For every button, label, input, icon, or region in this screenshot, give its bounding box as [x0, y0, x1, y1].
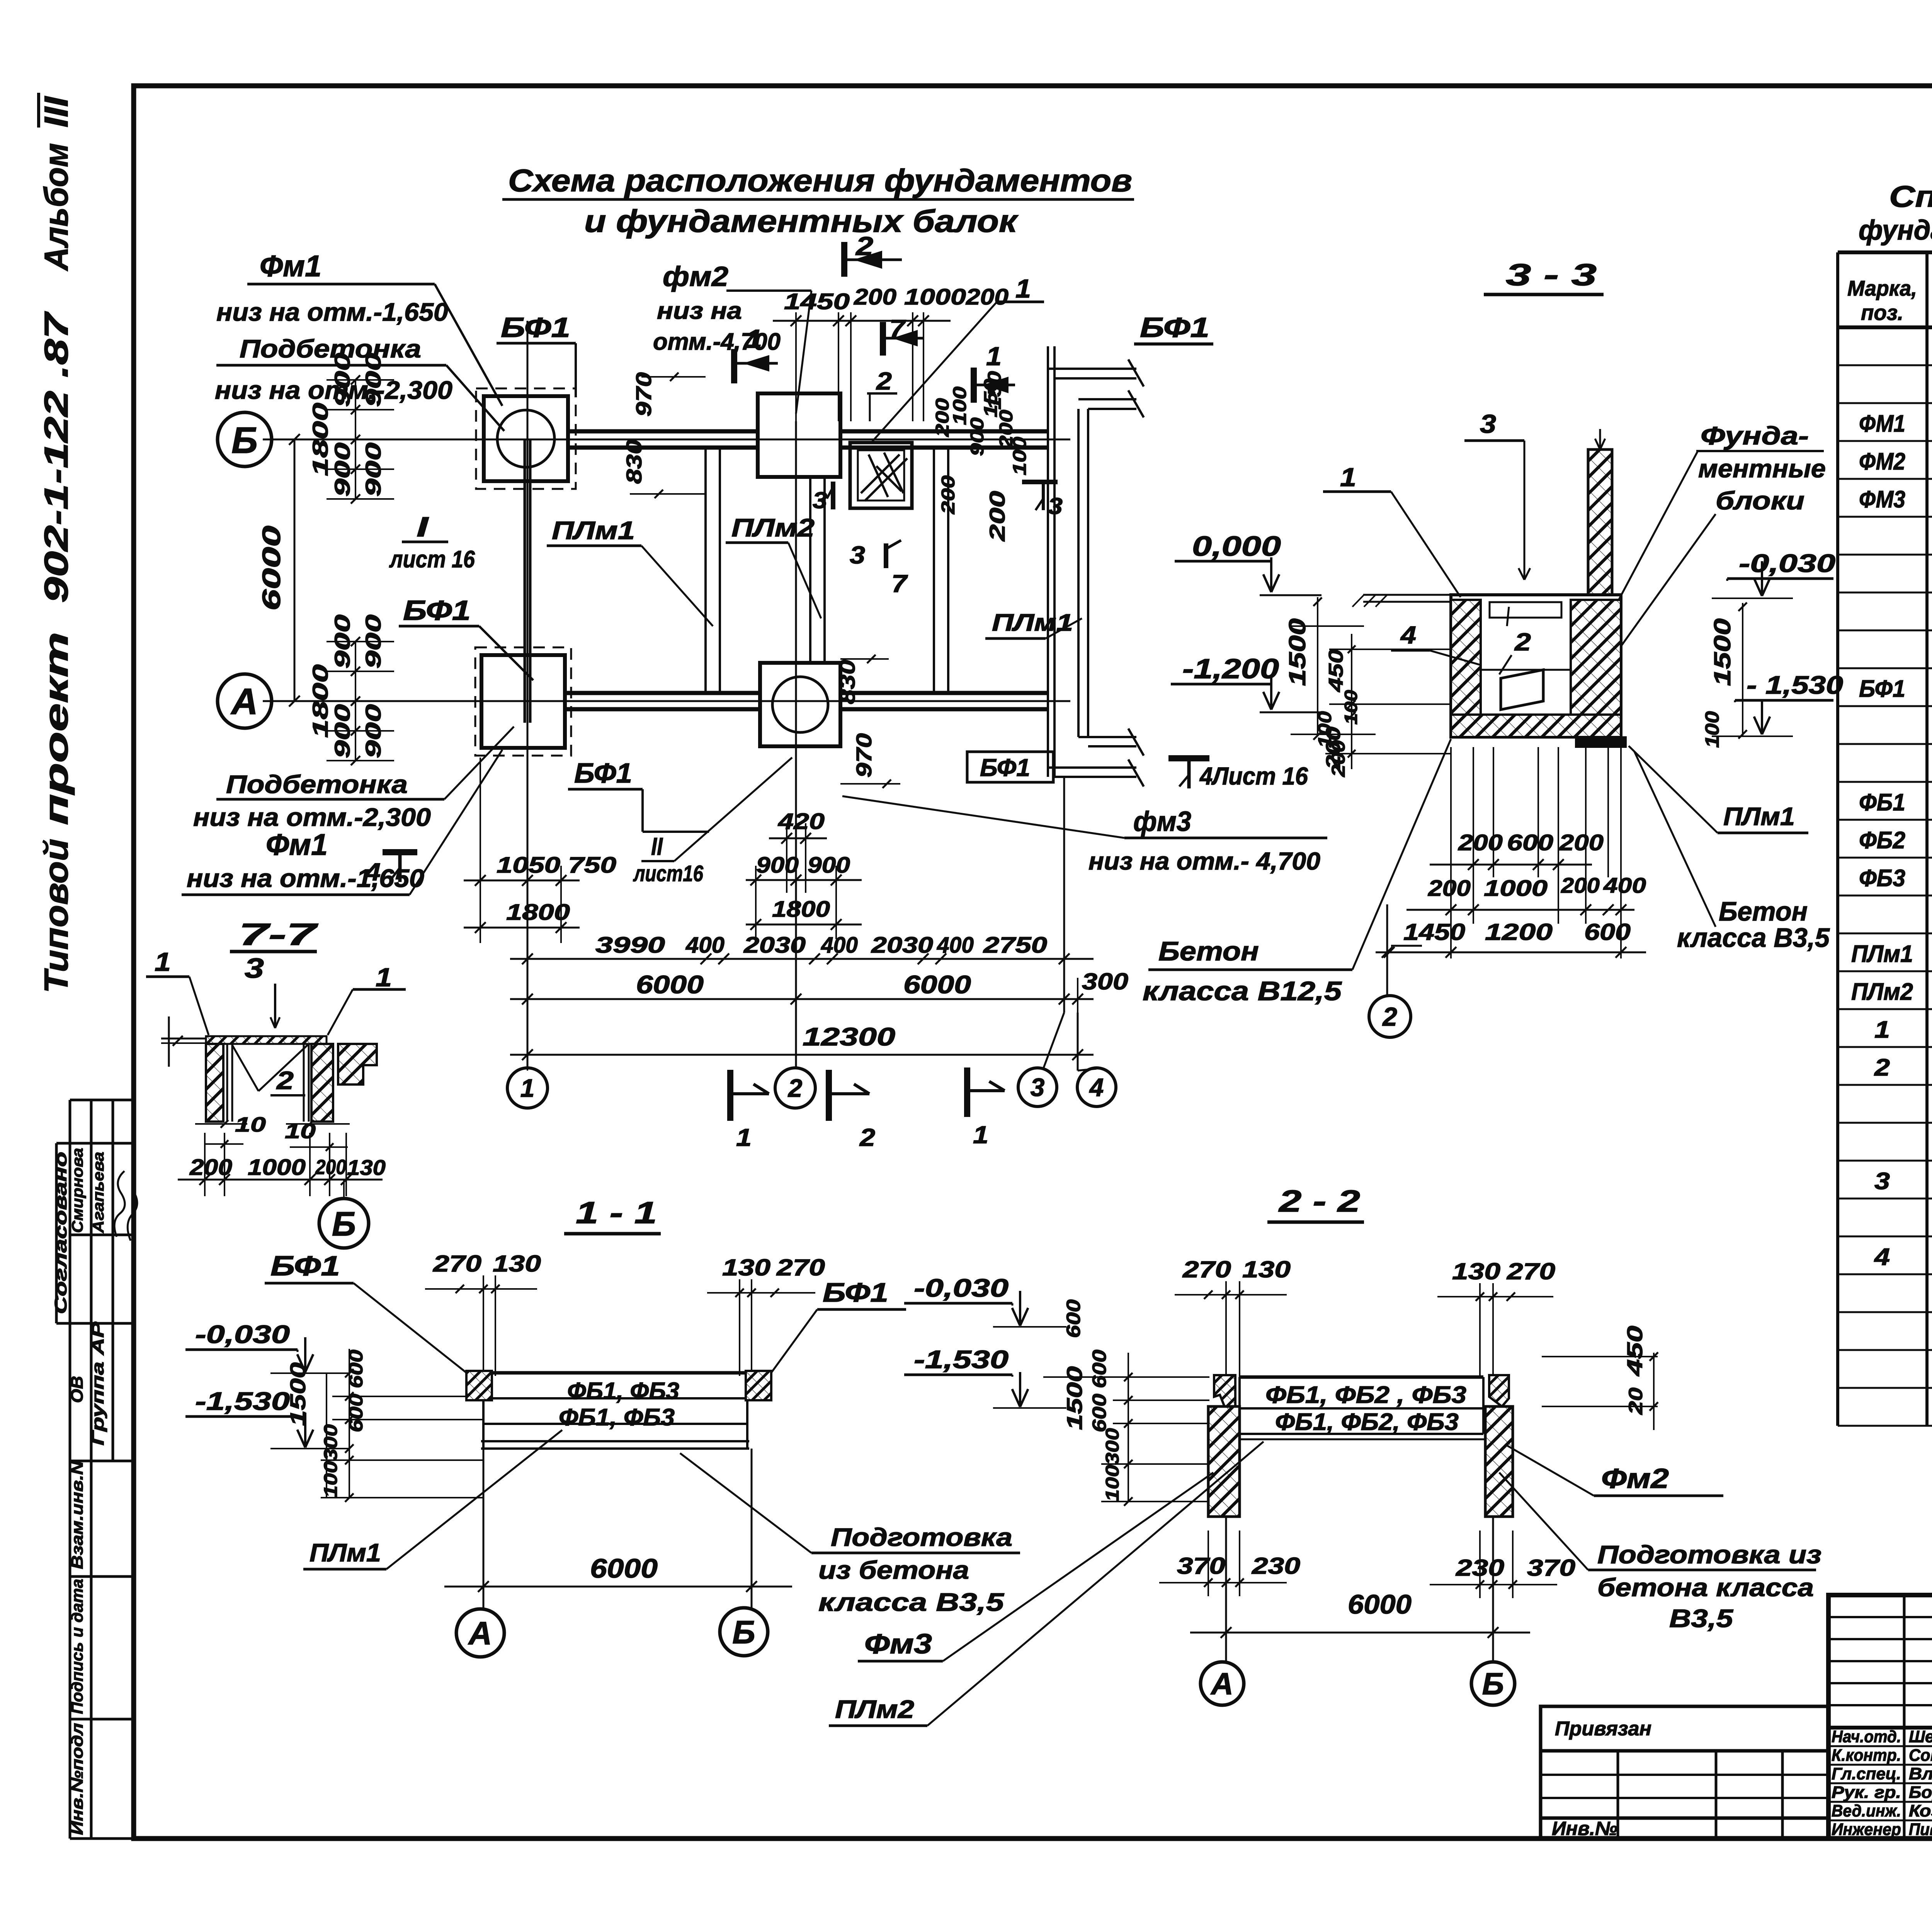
svg-text:1500: 1500: [1709, 618, 1735, 686]
svg-text:Рук. гр.: Рук. гр.: [1832, 1783, 1901, 1802]
svg-text:130: 130: [347, 1155, 386, 1180]
1-1 beam body: [481, 1373, 749, 1449]
foundation ФМ2 square: [758, 393, 840, 477]
svg-text:ПЛм1: ПЛм1: [1723, 802, 1795, 831]
3-3 right block hatched: [1571, 600, 1621, 715]
svg-text:Фм1: Фм1: [266, 827, 328, 861]
svg-text:12300: 12300: [803, 1022, 895, 1051]
svg-text:400: 400: [1603, 873, 1646, 897]
plan axis verticals down to circles: [527, 321, 529, 1069]
svg-text:270: 270: [433, 1251, 481, 1277]
svg-text:2: 2: [787, 1074, 803, 1102]
svg-text:1: 1: [1015, 274, 1031, 303]
3-3 bottom slab hatched: [1451, 715, 1621, 737]
left stamp label Инв.N подл: [68, 1723, 86, 1835]
svg-text:1: 1: [747, 324, 762, 354]
svg-text:из бетона: из бетона: [818, 1556, 969, 1584]
svg-text:А: А: [230, 681, 258, 722]
svg-text:270: 270: [776, 1255, 825, 1280]
svg-text:400: 400: [821, 933, 858, 958]
3-3 rotated dims 450/100/200 left: [1325, 649, 1347, 692]
svg-text:ПЛм1: ПЛм1: [552, 516, 635, 545]
svg-text:300: 300: [1082, 969, 1128, 994]
3-3 foot strip: [1576, 737, 1626, 747]
svg-text:1 - 1: 1 - 1: [576, 1195, 657, 1230]
svg-text:низ на отм.-2,300: низ на отм.-2,300: [193, 803, 431, 831]
svg-text:Пивоворова: Пивоворова: [1909, 1820, 1932, 1839]
svg-text:4: 4: [1089, 1073, 1104, 1102]
svg-text:1: 1: [376, 963, 392, 992]
svg-text:БФ1: БФ1: [501, 312, 570, 343]
svg-text:4: 4: [1874, 1244, 1890, 1270]
svg-text:ФМ1: ФМ1: [1859, 410, 1905, 437]
svg-text:2: 2: [1382, 1002, 1397, 1032]
section 7-7 slab: [206, 1036, 327, 1044]
svg-text:Фм1: Фм1: [260, 249, 321, 283]
привязан box: [1541, 1706, 1828, 1839]
svg-text:2750: 2750: [983, 933, 1047, 958]
3-3 wall above hatched: [1588, 449, 1612, 595]
svg-text:Марка,: Марка,: [1847, 276, 1917, 300]
svg-text:1: 1: [973, 1121, 988, 1149]
svg-text:600: 600: [1088, 1350, 1110, 1388]
svg-text:1: 1: [155, 947, 171, 977]
3-3 bottom projection verticals: [1451, 747, 1621, 958]
svg-text:4Лист 16: 4Лист 16: [1199, 762, 1308, 790]
svg-text:1800: 1800: [772, 897, 830, 922]
svg-text:Привязан: Привязан: [1555, 1718, 1651, 1740]
axis circle 2: [775, 1068, 815, 1108]
svg-text:2: 2: [276, 1066, 294, 1095]
svg-text:450: 450: [1325, 649, 1347, 692]
svg-text:Б: Б: [332, 1205, 356, 1243]
svg-text:3990: 3990: [595, 933, 665, 958]
foundation ФМ1 bottom: dashed outer square: [475, 647, 571, 756]
svg-text:лист16: лист16: [633, 861, 704, 886]
svg-text:100: 100: [321, 1461, 341, 1498]
left stamp label Группа АР: [88, 1321, 107, 1445]
svg-text:200: 200: [1561, 873, 1600, 897]
svg-text:Борисенко: Борисенко: [1909, 1783, 1932, 1802]
svg-text:класса В3,5: класса В3,5: [818, 1588, 1005, 1616]
svg-text:ОВ: ОВ: [68, 1376, 87, 1403]
svg-text:ФБ1, ФБ3: ФБ1, ФБ3: [559, 1404, 675, 1431]
rotated dims 150/200/100 at bracket: [981, 379, 1001, 417]
svg-text:200: 200: [854, 284, 896, 310]
svg-text:750: 750: [568, 853, 616, 878]
svg-text:900: 900: [330, 443, 354, 497]
svg-text:ПЛм2: ПЛм2: [1851, 979, 1913, 1005]
svg-text:100: 100: [1102, 1465, 1123, 1502]
plan right: wall bracket profile: [1048, 346, 1144, 787]
svg-text:200: 200: [938, 475, 959, 515]
flag 4 Лист 16: [1168, 755, 1209, 761]
svg-text:II: II: [651, 833, 663, 860]
svg-text:3: 3: [1874, 1168, 1890, 1195]
svg-text:ФБ2: ФБ2: [1859, 827, 1905, 854]
foundation ФМ1 top: solid square: [484, 396, 568, 481]
svg-text:Спецификация к схеме рас: Спецификация к схеме расположения: [1889, 179, 1932, 213]
3-3 rotated dim 1500 right: [1709, 618, 1735, 686]
foundation ФМ1 top: inner circle: [497, 410, 554, 467]
svg-text:3: 3: [813, 487, 827, 513]
svg-text:Нач.отд.: Нач.отд.: [1832, 1727, 1901, 1746]
svg-text:БФ1: БФ1: [823, 1277, 888, 1308]
svg-text:1: 1: [1340, 463, 1356, 492]
plan bottom dims 420 / 900 900 / 1800 (axis 2): [746, 823, 862, 939]
svg-text:1200: 1200: [1485, 919, 1553, 945]
svg-text:2: 2: [855, 232, 874, 261]
svg-text:БФ1: БФ1: [1140, 312, 1209, 343]
svg-text:БФ1: БФ1: [270, 1251, 340, 1282]
beam edges along axis Б: [568, 429, 758, 434]
rotated dim 200 (left of bracket): [985, 491, 1009, 541]
rotated dim 970 (lower): [852, 733, 876, 778]
svg-text:Подготовка: Подготовка: [831, 1523, 1012, 1551]
plan: axis circle А: [218, 674, 272, 728]
foundation ФМ3 circle: [772, 677, 828, 732]
svg-text:200: 200: [189, 1155, 232, 1180]
plate ПЛм2 vertical edges: [809, 477, 811, 663]
rotated dims 200/100/900/150 cluster: [932, 398, 953, 438]
svg-text:2 - 2: 2 - 2: [1278, 1184, 1360, 1218]
embedded item: hatched square: [850, 443, 912, 508]
svg-text:1: 1: [1874, 1016, 1890, 1043]
1-1 rotated dims 600/600/1500/300/100: [345, 1350, 367, 1388]
svg-text:6000: 6000: [903, 970, 971, 999]
svg-text:фм2: фм2: [663, 261, 728, 292]
1-1 axis lines and circles: [483, 1449, 485, 1609]
svg-text:900: 900: [361, 615, 385, 669]
svg-text:600: 600: [1507, 830, 1553, 855]
section flag 1 (bottom right): [964, 1067, 970, 1117]
svg-text:0,000: 0,000: [1192, 531, 1281, 562]
svg-text:100: 100: [1701, 711, 1723, 748]
svg-text:Подбетонка: Подбетонка: [240, 334, 421, 363]
left stamp label Смирнова: [69, 1148, 86, 1233]
svg-text:Схема расположения фундаменто: Схема расположения фундаментов: [508, 163, 1132, 198]
svg-text:Подбетонка: Подбетонка: [226, 770, 408, 798]
2-2 dims 450/20 rotated right: [1622, 1326, 1647, 1376]
plan: vertical dim 6000 between axes: [294, 439, 296, 701]
svg-text:600: 600: [1584, 919, 1631, 945]
svg-text:и фундаментных балок: и фундаментных балок: [584, 204, 1019, 239]
svg-text:600: 600: [345, 1350, 367, 1388]
section 7-7 V trench: [232, 1045, 259, 1091]
circled 2 under 3-3: [1369, 996, 1411, 1037]
svg-text:-1,530: -1,530: [914, 1345, 1009, 1374]
svg-text:-1,200: -1,200: [1182, 654, 1279, 684]
svg-text:Типовой: Типовой: [38, 839, 75, 993]
svg-text:900: 900: [808, 853, 850, 878]
svg-text:1450: 1450: [1403, 919, 1465, 945]
plan: axis Б line: [263, 439, 1070, 441]
svg-text:1000: 1000: [248, 1155, 306, 1180]
svg-text:Власенко: Власенко: [1909, 1764, 1932, 1783]
3-3 cavity inner details: [1490, 602, 1561, 618]
svg-text:Группа АР: Группа АР: [88, 1321, 107, 1445]
2-2 left column hatched: [1208, 1406, 1240, 1517]
svg-text:Шейко: Шейко: [1909, 1727, 1932, 1746]
svg-text:3 - 3: 3 - 3: [1506, 257, 1597, 292]
svg-text:ПЛм2: ПЛм2: [731, 513, 815, 542]
rotated dim 830 (upper): [622, 439, 646, 484]
svg-text:2030: 2030: [871, 933, 933, 958]
svg-text:400: 400: [685, 933, 724, 958]
svg-text:Взам.инв.N: Взам.инв.N: [68, 1460, 86, 1569]
svg-text:902-1-122 .87: 902-1-122 .87: [38, 311, 75, 603]
section 7-7 axis circle Б: [319, 1199, 369, 1248]
svg-text:БФ1: БФ1: [403, 595, 471, 626]
svg-text:7-7: 7-7: [239, 917, 318, 952]
plate ПЛм1 vertical edges: [704, 448, 707, 693]
svg-text:6000: 6000: [636, 970, 704, 999]
svg-text:3: 3: [1031, 1073, 1045, 1102]
svg-text:200: 200: [1322, 727, 1345, 770]
svg-text:130: 130: [722, 1255, 770, 1280]
svg-text:600: 600: [1063, 1299, 1084, 1338]
svg-text:130: 130: [493, 1251, 541, 1277]
svg-text:ФБ1: ФБ1: [1859, 789, 1905, 816]
svg-text:Б: Б: [732, 1614, 755, 1650]
svg-text:1500: 1500: [286, 1362, 310, 1426]
rotated dim 830 (lower): [835, 660, 859, 704]
plan dim row 12300: [510, 943, 1094, 1071]
svg-text:1000: 1000: [904, 284, 966, 310]
1-1 left dim verticals: [321, 1349, 483, 1502]
sidebar text: Типовой проект: [38, 839, 75, 993]
svg-text:бетона класса: бетона класса: [1597, 1573, 1814, 1602]
axis circle 3: [1018, 1068, 1057, 1107]
svg-text:1800: 1800: [506, 900, 570, 925]
left stamp label ОВ: [68, 1376, 87, 1403]
svg-text:270: 270: [1182, 1256, 1231, 1282]
svg-text:ФМ3: ФМ3: [1859, 486, 1905, 513]
svg-text:Вед.инж.: Вед.инж.: [1832, 1801, 1901, 1820]
svg-text:3: 3: [850, 541, 865, 569]
svg-text:Бетон: Бетон: [1719, 896, 1808, 926]
svg-text:3: 3: [245, 953, 264, 984]
svg-text:900: 900: [967, 417, 988, 456]
svg-text:Сокольская: Сокольская: [1909, 1746, 1932, 1765]
svg-text:ФБ1, ФБ3: ФБ1, ФБ3: [567, 1378, 679, 1405]
svg-text:фундаментов и фундаментных ба: фундаментов и фундаментных балок: [1859, 215, 1932, 246]
svg-text:Альбом: Альбом: [38, 143, 75, 271]
section flag 2 near circle 2 (bottom): [826, 1070, 832, 1121]
svg-text:Б: Б: [231, 420, 258, 461]
svg-text:поз.: поз.: [1861, 300, 1903, 325]
3-3 rotated dim 100 right: [1701, 711, 1723, 748]
svg-text:400: 400: [937, 933, 974, 958]
3-3 rotated dim 1500 left: [1284, 618, 1310, 686]
svg-text:3: 3: [1480, 409, 1496, 439]
beam БФ1 vertical between ФМ1 squares: [524, 439, 526, 723]
svg-text:1000: 1000: [1484, 876, 1548, 901]
section flag 2 (top): [841, 242, 847, 277]
svg-text:970: 970: [631, 372, 656, 417]
svg-text:270: 270: [1507, 1258, 1555, 1284]
label БФ1 boxed (plan, axis А right): [967, 752, 1053, 782]
svg-text:низ на отм.- 4,700: низ на отм.- 4,700: [1088, 847, 1320, 875]
svg-text:ФБ1, ФБ2, ФБ3: ФБ1, ФБ2, ФБ3: [1275, 1409, 1459, 1435]
svg-text:300: 300: [321, 1424, 341, 1461]
svg-text:Инженер: Инженер: [1832, 1820, 1901, 1839]
svg-text:ФБ3: ФБ3: [1859, 865, 1905, 892]
svg-text:Инв.№: Инв.№: [1552, 1818, 1617, 1839]
svg-text:низ на отм.-1,650: низ на отм.-1,650: [216, 298, 448, 326]
plan dim row 6000/6000/300: [510, 994, 1094, 1004]
svg-text:А: А: [468, 1615, 492, 1651]
svg-text:Козина: Козина: [1909, 1801, 1932, 1820]
left stamp label Согласовано: [51, 1152, 70, 1314]
svg-text:1800: 1800: [308, 664, 332, 738]
svg-text:130: 130: [1242, 1256, 1291, 1282]
axis circle 1: [507, 1068, 548, 1108]
svg-text:БФ1: БФ1: [980, 754, 1030, 781]
svg-text:III: III: [38, 96, 75, 128]
sidebar text: Альбом III: [38, 143, 75, 271]
rotated dim 970 (upper): [631, 372, 656, 417]
section flag 1 near circle 1 (bottom): [727, 1070, 733, 1121]
svg-text:В3,5: В3,5: [1669, 1604, 1734, 1633]
svg-text:200: 200: [1559, 830, 1604, 855]
svg-text:проект: проект: [38, 632, 75, 825]
svg-text:Подпись и дата: Подпись и дата: [68, 1579, 86, 1714]
svg-text:970: 970: [852, 733, 876, 778]
svg-text:370: 370: [1527, 1555, 1575, 1581]
svg-text:Б: Б: [1482, 1667, 1504, 1701]
plan: left dim cluster at axis А (900/900/1800): [327, 637, 394, 765]
svg-text:900: 900: [330, 615, 354, 669]
svg-text:Агапьева: Агапьева: [90, 1152, 107, 1233]
section 7-7 right stepped block: [338, 1044, 377, 1084]
3-3 left wall hatched: [1451, 600, 1481, 715]
svg-text:Инв.№подл: Инв.№подл: [68, 1723, 86, 1835]
svg-text:Согласовано: Согласовано: [51, 1152, 70, 1314]
svg-text:200: 200: [966, 284, 1009, 310]
svg-text:2: 2: [876, 367, 892, 395]
spec table grid: [1838, 252, 1932, 1426]
2-2 beam body: [1238, 1377, 1485, 1439]
svg-text:900: 900: [330, 704, 354, 758]
svg-text:Фунда-: Фунда-: [1701, 421, 1809, 450]
foundation ФМ1 bottom: solid square: [481, 655, 565, 748]
2-2 end caps hatched: [1214, 1375, 1235, 1406]
svg-text:фм3: фм3: [1133, 806, 1191, 837]
svg-text:830: 830: [622, 439, 646, 484]
plan main dim row 3990/400/2030/400/2030/400/2750: [510, 953, 1094, 964]
svg-text:Бетон: Бетон: [1158, 936, 1259, 966]
2-2 left elevation dims (rotated 600/600/1500/300/100): [1063, 1299, 1084, 1338]
foundation ФМ3 square: [760, 663, 840, 746]
svg-text:ФМ2: ФМ2: [1859, 448, 1905, 475]
svg-text:2: 2: [1874, 1054, 1890, 1081]
svg-text:-0,030: -0,030: [914, 1273, 1009, 1302]
svg-text:ФБ1, ФБ2 , ФБ3: ФБ1, ФБ2 , ФБ3: [1265, 1382, 1466, 1408]
section 7-7 right column: [311, 1044, 333, 1122]
svg-text:класса В12,5: класса В12,5: [1143, 976, 1342, 1006]
plan top dims 1450/200/1000/200: [773, 312, 951, 421]
svg-text:2: 2: [859, 1124, 875, 1151]
svg-text:I: I: [417, 512, 429, 543]
3-3 floor slab left: [1363, 594, 1451, 596]
title block: small revision rows: [1828, 1595, 1932, 1839]
plan: axis А line: [263, 700, 1070, 702]
svg-text:1: 1: [736, 1124, 752, 1151]
svg-text:Гл.спец.: Гл.спец.: [1832, 1764, 1901, 1783]
svg-text:ПЛм2: ПЛм2: [835, 1695, 914, 1723]
svg-text:230: 230: [1252, 1553, 1300, 1579]
svg-text:-0,030: -0,030: [195, 1320, 290, 1348]
plate vertical edges right: [933, 448, 935, 693]
beam edges along axis А: [565, 691, 760, 695]
svg-text:ПЛм1: ПЛм1: [992, 609, 1073, 636]
svg-text:7: 7: [891, 570, 908, 598]
svg-text:1500: 1500: [1284, 618, 1310, 686]
svg-text:600: 600: [345, 1394, 367, 1432]
svg-text:ПЛм1: ПЛм1: [310, 1538, 381, 1567]
svg-text:200: 200: [1458, 830, 1503, 855]
svg-text:900: 900: [756, 853, 799, 878]
svg-text:ментные: ментные: [1698, 454, 1826, 483]
plan bottom dims 1050/750 and 1800: [464, 758, 580, 943]
left stamp label Агапьева: [90, 1152, 107, 1233]
sidebar text: 902-1-122.87: [38, 311, 75, 603]
svg-text:низ на отм.-1,650: низ на отм.-1,650: [187, 864, 424, 892]
svg-text:6000: 6000: [257, 526, 286, 611]
title block outer: [1828, 1595, 1932, 1839]
2-2 axis lines and circles: [1225, 1517, 1227, 1663]
svg-text:класса В3,5: класса В3,5: [1677, 923, 1830, 953]
svg-text:130: 130: [1452, 1258, 1500, 1284]
section 7-7 arrow 3: [274, 984, 276, 1028]
svg-text:6000: 6000: [590, 1553, 658, 1583]
svg-text:ПЛм1: ПЛм1: [1851, 941, 1913, 967]
left stamp table: [56, 1100, 134, 1839]
svg-text:лист 16: лист 16: [389, 546, 475, 573]
svg-text:Фм2: Фм2: [1601, 1463, 1669, 1494]
svg-text:300: 300: [1102, 1428, 1123, 1465]
svg-text:блоки: блоки: [1716, 486, 1804, 515]
svg-text:1: 1: [520, 1074, 535, 1102]
section 7-7 left column: [206, 1044, 223, 1122]
svg-text:200: 200: [315, 1156, 346, 1179]
svg-text:370: 370: [1177, 1553, 1225, 1579]
svg-text:Подготовка из: Подготовка из: [1597, 1540, 1821, 1569]
axis circle 4: [1077, 1068, 1116, 1107]
svg-text:Смирнова: Смирнова: [69, 1148, 86, 1233]
svg-text:- 1,530: - 1,530: [1747, 671, 1843, 699]
left stamp label Подпись и дата: [68, 1579, 86, 1714]
svg-text:1800: 1800: [308, 403, 332, 476]
svg-text:900: 900: [361, 704, 385, 758]
svg-text:1500: 1500: [1062, 1366, 1087, 1430]
svg-text:100: 100: [1010, 437, 1030, 475]
svg-text:200: 200: [1428, 876, 1471, 901]
svg-text:-1,530: -1,530: [195, 1387, 290, 1415]
svg-text:-0,030: -0,030: [1739, 549, 1835, 577]
level tie lines (plan right): [1291, 625, 1364, 627]
section flag 3 (right of embed): [1022, 480, 1058, 484]
svg-text:К.контр.: К.контр.: [1832, 1746, 1901, 1765]
svg-text:420: 420: [778, 809, 825, 834]
plan: axis circle Б: [218, 412, 272, 466]
svg-text:низ на: низ на: [657, 298, 742, 324]
plan: left dim cluster at axis Б (900/900/1800): [327, 375, 394, 504]
svg-text:600: 600: [1088, 1394, 1110, 1432]
rotated dims 100/200 (plan right lower): [1315, 711, 1335, 748]
svg-text:2: 2: [1514, 628, 1531, 656]
